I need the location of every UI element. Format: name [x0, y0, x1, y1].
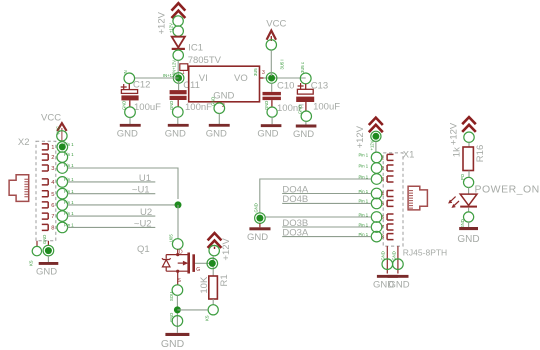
wire +12V to R16	[468, 142, 470, 147]
svg-text:GND: GND	[36, 266, 57, 277]
net U2 wire	[68, 215, 156, 217]
pin circle (+12V supply pin)	[173, 16, 183, 26]
X1 pin 2	[359, 163, 394, 174]
svg-text:Pin 1: Pin 1	[64, 177, 74, 182]
X2 pin 8	[42, 222, 74, 233]
svg-text:GND: GND	[117, 128, 138, 139]
voltage regulator IC1 7805TV	[182, 42, 265, 109]
ground under X1 shield S1	[373, 275, 398, 291]
svg-text:100uF: 100uF	[313, 102, 340, 113]
node +12V X1 junction	[371, 131, 381, 141]
LED1	[449, 194, 477, 208]
ground under X2	[36, 262, 58, 277]
resistor R16	[452, 145, 486, 171]
pin circle C12 bottom	[125, 107, 136, 118]
supply +12V at R1	[208, 233, 233, 261]
svg-text:+12V: +12V	[355, 125, 366, 148]
svg-text:3: 3	[51, 166, 54, 172]
ground under C11	[165, 124, 189, 139]
net ~U1 wire	[68, 193, 156, 195]
connector X1 jack symbol	[408, 186, 427, 210]
svg-text:6: 6	[51, 203, 54, 209]
svg-text:GND: GND	[381, 251, 386, 260]
net DO3A wire	[282, 236, 371, 238]
svg-text:PO: PO	[460, 173, 465, 180]
X2 pin 2	[42, 152, 74, 163]
svg-text:SOU: SOU	[169, 292, 174, 301]
X1 pin 3	[359, 174, 394, 185]
wire shield to gnd	[47, 256, 49, 262]
net ~U2 wire	[68, 226, 156, 228]
wire VCC down	[270, 50, 272, 76]
svg-text:~U2: ~U2	[134, 218, 152, 229]
X2 pin 5	[42, 188, 74, 199]
svg-text:GND: GND	[257, 128, 278, 139]
svg-text:IN: IN	[123, 70, 128, 74]
svg-text:IC1: IC1	[188, 42, 203, 53]
node X2 shield junction	[45, 247, 52, 254]
capacitor C10	[263, 80, 305, 114]
svg-text:+12V: +12V	[369, 140, 374, 150]
ground under C12	[117, 124, 141, 139]
svg-text:+12V: +12V	[448, 122, 459, 145]
svg-text:X1: X1	[403, 150, 415, 161]
svg-text:GND: GND	[293, 129, 314, 140]
wire C12 to gnd	[129, 118, 131, 125]
svg-text:KS: KS	[29, 260, 34, 266]
wire LED cathode	[468, 208, 470, 212]
wire R1 to source node	[177, 309, 207, 311]
X1 pin 5	[359, 198, 394, 209]
svg-text:3U5 c: 3U5 c	[300, 62, 305, 73]
svg-text:VCC: VCC	[266, 18, 286, 29]
svg-text:GND: GND	[264, 101, 269, 110]
svg-text:100uF: 100uF	[134, 102, 161, 113]
svg-text:C12: C12	[133, 80, 150, 91]
pin circle LED cathode	[464, 212, 474, 222]
svg-text:GND: GND	[165, 128, 186, 139]
svg-text:Pin 1: Pin 1	[64, 200, 74, 205]
capacitor C11	[170, 80, 213, 113]
ground under C10	[257, 124, 281, 139]
wire node IN to C12	[134, 77, 179, 79]
node Q1D junction	[175, 201, 182, 208]
svg-text:VO: VO	[234, 73, 248, 84]
wire node Q1D down to Q1	[177, 205, 179, 239]
svg-text:G: G	[196, 267, 200, 273]
supply VCC (X2)	[41, 113, 67, 142]
X1 pin 7	[359, 222, 394, 233]
pin circle (diode anode)	[173, 26, 183, 36]
node X1 gnd junction	[255, 213, 266, 224]
svg-text:+12V: +12V	[221, 237, 232, 260]
supply +12V top (main rail)	[156, 3, 185, 34]
wire C10 to gnd	[271, 117, 273, 124]
svg-text:GND: GND	[298, 105, 303, 114]
resistor R1	[199, 274, 230, 299]
pin circle R16 bottom	[464, 177, 474, 187]
svg-text:Pin 1: Pin 1	[64, 163, 74, 168]
svg-text:U05: U05	[169, 234, 174, 242]
X2 pin 3	[42, 163, 74, 174]
pin circle +12V R16	[464, 132, 474, 142]
pin circle C13 bottom	[301, 111, 311, 121]
wire X1 pin6 to gnd node	[265, 216, 371, 218]
svg-text:3U5: 3U5	[253, 68, 258, 76]
transistor Q1	[137, 234, 200, 285]
svg-text:VCC: VCC	[56, 126, 61, 135]
svg-text:Pin 1: Pin 1	[64, 142, 74, 147]
svg-text:GND: GND	[121, 101, 126, 110]
svg-text:DO4B: DO4B	[282, 194, 308, 205]
X1 pin 4	[359, 188, 394, 199]
wire gnd node stub	[259, 223, 261, 227]
pin circle gnd Q1	[172, 316, 183, 327]
wire X2 pin6 to node Q1D	[68, 204, 178, 206]
svg-text:GND: GND	[213, 90, 234, 101]
svg-text:7: 7	[51, 214, 54, 220]
svg-text:GND: GND	[42, 235, 47, 244]
pin circle VCC X2	[57, 131, 67, 141]
node source junction	[174, 306, 181, 313]
node gate junction	[207, 258, 218, 269]
svg-text:1: 1	[51, 145, 54, 151]
svg-text:POWER_ON: POWER_ON	[475, 184, 540, 196]
X1 shield pin S1	[381, 246, 393, 273]
net DO4B wire	[282, 202, 371, 204]
ground mid (X1 pins 3,6)	[247, 227, 271, 243]
pin circle C10 bottom	[267, 107, 277, 117]
pin circle R1 bottom	[208, 305, 218, 315]
svg-text:GND: GND	[247, 232, 268, 243]
connector X2 outline (dashed)	[36, 141, 56, 241]
node VCC at X2 pin1 junction	[59, 143, 66, 150]
supply +12V at X1	[355, 118, 383, 149]
wire diode to node IN	[177, 60, 179, 76]
svg-text:C10: C10	[277, 80, 294, 91]
net DO4A wire	[282, 193, 371, 195]
connector X2 jack symbol	[9, 175, 29, 202]
svg-text:8: 8	[51, 226, 54, 232]
net U1 wire	[68, 181, 156, 183]
svg-text:R16: R16	[475, 145, 486, 162]
svg-text:10K: 10K	[199, 276, 210, 294]
wire VO to C13	[264, 77, 306, 79]
pin circle C11 bottom	[173, 107, 184, 118]
X2 pin 1	[42, 142, 68, 153]
X2 shield pin S2	[42, 235, 54, 256]
wire +12V to X1 pin1	[375, 141, 377, 152]
ground under LED	[457, 227, 479, 245]
node IN junction	[173, 73, 184, 84]
svg-text:C11: C11	[183, 80, 200, 91]
pin circle +12V R1	[209, 245, 219, 255]
svg-text:KS: KS	[204, 315, 209, 321]
svg-text:1k: 1k	[452, 147, 463, 157]
wire to LED anode	[468, 188, 470, 195]
capacitor C12	[121, 70, 161, 113]
svg-text:DO3A: DO3A	[282, 227, 309, 238]
svg-text:GND: GND	[253, 203, 258, 212]
svg-text:GND: GND	[169, 101, 174, 110]
svg-text:7805TV: 7805TV	[188, 55, 222, 66]
svg-text:VCC: VCC	[41, 113, 61, 124]
net DO3B wire	[282, 226, 371, 228]
svg-text:IN+12V: IN+12V	[172, 60, 177, 74]
capacitor C13	[296, 62, 340, 113]
X1 pin 6	[359, 212, 394, 223]
pin circle VCC supply	[266, 40, 276, 50]
node VCC junction (pin circle + dot)	[266, 73, 277, 84]
svg-text:C13: C13	[311, 81, 328, 92]
svg-text:Pin 1: Pin 1	[64, 152, 74, 157]
pin circle (diode cathode)	[173, 50, 183, 60]
X2 pin 7	[42, 211, 74, 222]
wire X2 pin3 to Q1 column	[68, 168, 178, 199]
svg-text:U1: U1	[139, 173, 151, 184]
svg-text:GND: GND	[457, 234, 479, 245]
wire LED to gnd	[468, 222, 470, 227]
svg-text:1: 1	[182, 70, 185, 76]
wire X1 pin3 to gnd node	[260, 179, 372, 213]
svg-text:~U1: ~U1	[132, 185, 150, 196]
svg-text:GND: GND	[389, 280, 410, 291]
svg-text:3U5 I: 3U5 I	[280, 59, 285, 69]
svg-text:GND: GND	[161, 338, 185, 350]
X1 shield pin S2	[391, 246, 403, 273]
ground under IC1	[206, 124, 230, 139]
ground under C13	[293, 125, 316, 141]
svg-text:IN+12V: IN+12V	[163, 73, 177, 78]
svg-text:Pin 1: Pin 1	[64, 211, 74, 216]
wire IC1 gnd	[218, 114, 220, 125]
X1 pin 1	[359, 152, 394, 163]
X1 pin 8	[359, 231, 394, 242]
pin 1 marker square IC1	[180, 64, 188, 71]
ground under X1 shield S2	[388, 275, 410, 291]
X2 pin 4	[42, 177, 74, 188]
svg-text:+12V: +12V	[156, 11, 167, 34]
supply VCC (top)	[266, 18, 286, 41]
svg-text:3: 3	[262, 70, 265, 76]
pin circle IC1 gnd	[214, 103, 225, 114]
diode D1	[172, 37, 185, 49]
wire R16 to LED	[468, 171, 470, 178]
wire Q1 source to gnd	[176, 295, 178, 332]
svg-text:Q1: Q1	[137, 244, 150, 255]
svg-text:RJ45-8PTH: RJ45-8PTH	[403, 247, 447, 257]
svg-text:2: 2	[51, 155, 54, 161]
svg-text:GND: GND	[206, 128, 227, 139]
wire Q1 gate to node R1	[195, 262, 209, 264]
pin circle Q1 source	[172, 285, 183, 296]
svg-text:U2: U2	[140, 207, 152, 218]
svg-text:100nF: 100nF	[185, 102, 212, 113]
svg-text:X2: X2	[18, 137, 30, 148]
wire C11 to gnd	[177, 117, 179, 124]
svg-text:Pin 1: Pin 1	[359, 153, 369, 158]
wire R1 bottom	[212, 299, 214, 305]
svg-text:R1: R1	[219, 274, 230, 286]
svg-text:Pin 1: Pin 1	[64, 189, 74, 194]
X2 pin 6	[42, 200, 74, 211]
supply +12V at R16	[448, 117, 476, 145]
svg-text:VI: VI	[199, 73, 208, 84]
svg-text:Pin 1: Pin 1	[359, 163, 369, 168]
X2 shield pin S1	[29, 241, 42, 266]
svg-text:GND: GND	[211, 97, 216, 106]
wire C13 to gnd	[305, 121, 307, 124]
ground under Q1	[161, 333, 190, 350]
connector X1 outline (dashed)	[383, 153, 403, 246]
svg-text:Pin 1: Pin 1	[64, 223, 74, 228]
svg-text:GND: GND	[391, 251, 396, 260]
svg-text:5: 5	[51, 192, 54, 198]
wire +12V to R1	[212, 256, 214, 276]
